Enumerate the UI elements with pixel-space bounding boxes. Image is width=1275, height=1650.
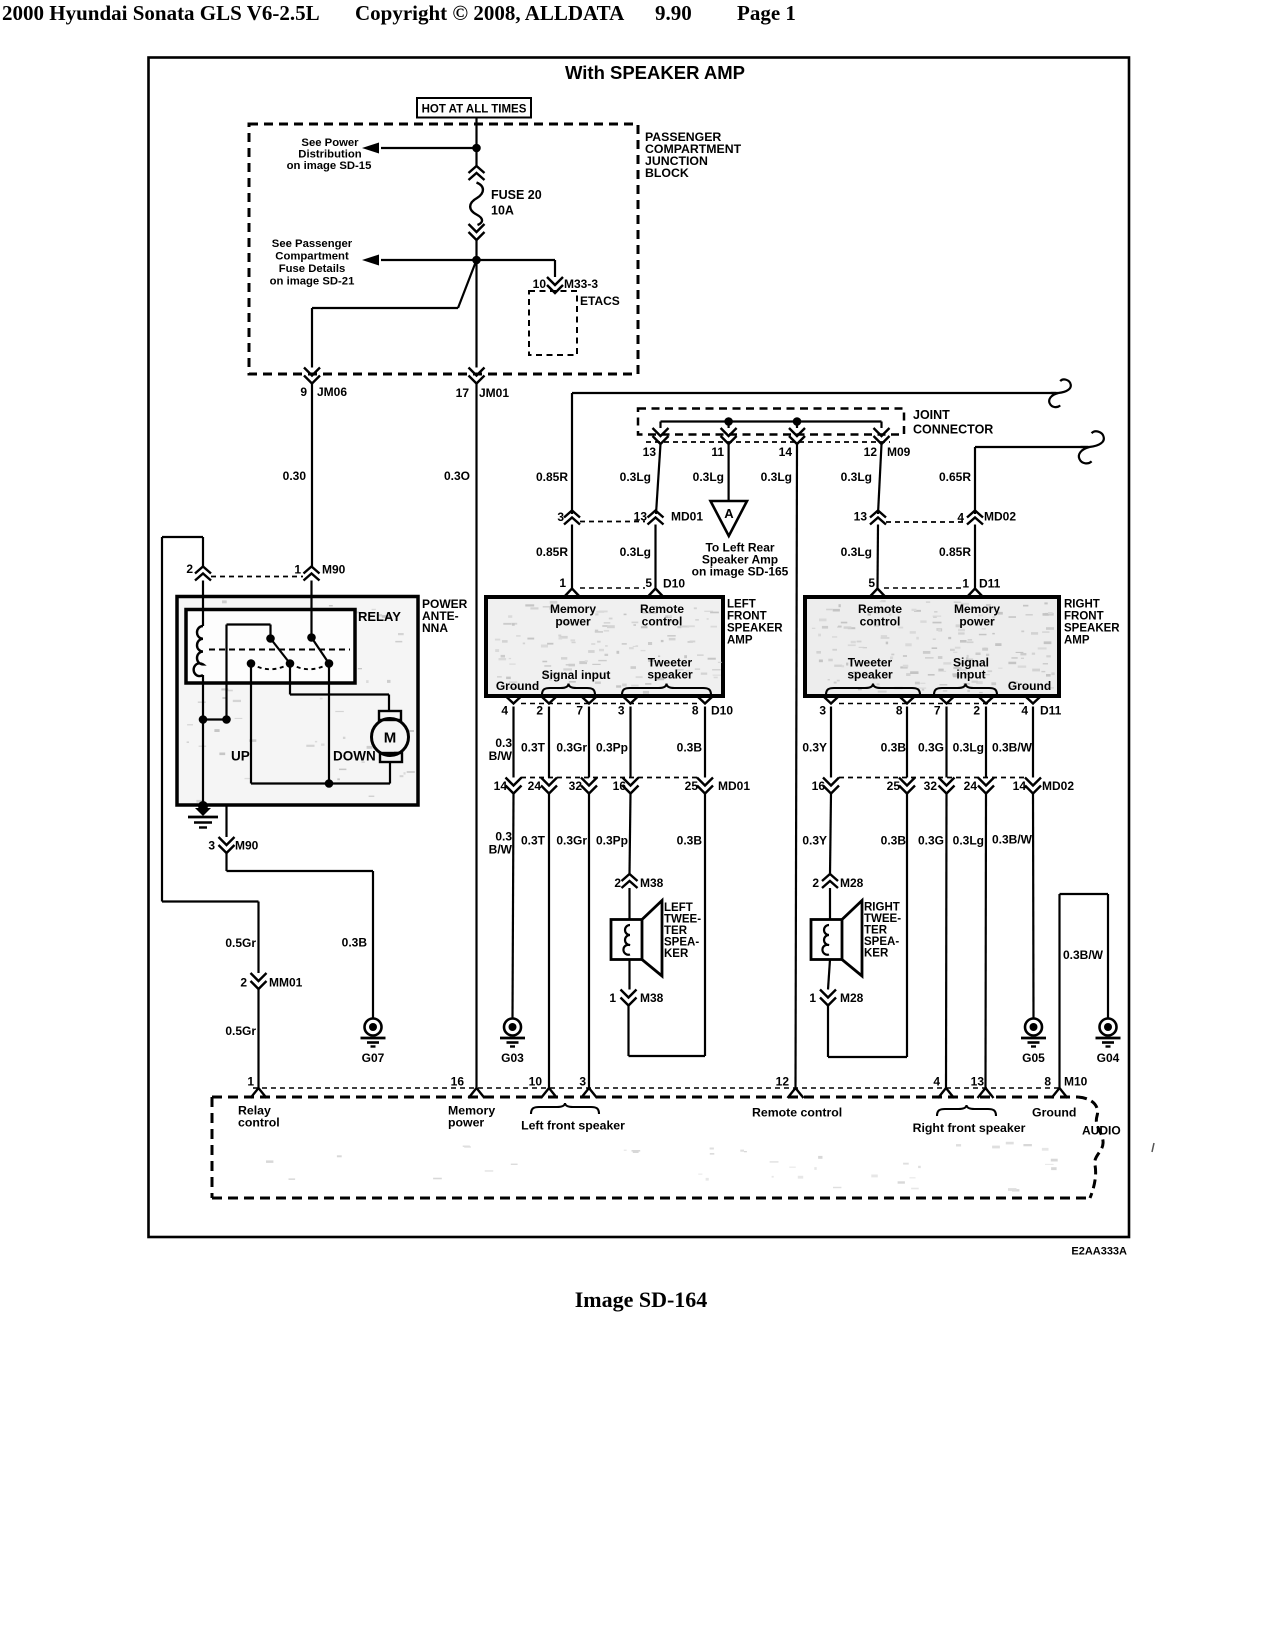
svg-text:10: 10	[529, 1075, 543, 1089]
svg-text:9: 9	[300, 385, 307, 399]
svg-text:MD01: MD01	[718, 779, 750, 793]
svg-text:B/W: B/W	[489, 749, 513, 763]
svg-text:2: 2	[536, 704, 543, 718]
svg-text:Distribution: Distribution	[298, 149, 361, 161]
svg-text:25: 25	[887, 779, 901, 793]
svg-text:5: 5	[868, 576, 875, 590]
svg-text:7: 7	[934, 704, 941, 718]
svg-text:Remote control: Remote control	[752, 1106, 842, 1120]
svg-text:See Power: See Power	[301, 137, 359, 149]
svg-text:0.5Gr: 0.5Gr	[225, 936, 256, 950]
svg-text:D11: D11	[1040, 704, 1062, 718]
svg-text:Ground: Ground	[1008, 679, 1051, 693]
svg-text:1: 1	[294, 563, 301, 577]
svg-text:Right front speaker: Right front speaker	[913, 1121, 1026, 1135]
svg-text:0.3G: 0.3G	[918, 741, 944, 755]
svg-text:4: 4	[1021, 704, 1028, 718]
svg-text:AMP: AMP	[727, 635, 753, 647]
svg-text:TWEE-: TWEE-	[664, 914, 701, 926]
svg-text:2000 Hyundai Sonata GLS V6-2.5: 2000 Hyundai Sonata GLS V6-2.5L	[2, 1, 320, 25]
svg-text:M28: M28	[840, 991, 864, 1005]
svg-text:1: 1	[609, 991, 616, 1005]
svg-text:power: power	[448, 1116, 484, 1130]
svg-text:D10: D10	[663, 577, 685, 591]
svg-text:NNA: NNA	[422, 621, 448, 635]
svg-text:Image SD-164: Image SD-164	[575, 1287, 708, 1312]
svg-text:5: 5	[645, 576, 652, 590]
svg-text:G03: G03	[501, 1051, 524, 1065]
svg-text:17: 17	[456, 386, 470, 400]
svg-text:0.3Gr: 0.3Gr	[556, 834, 587, 848]
svg-text:9.90: 9.90	[655, 1, 692, 25]
svg-text:32: 32	[569, 779, 583, 793]
svg-text:12: 12	[776, 1075, 790, 1089]
svg-text:DOWN: DOWN	[333, 749, 376, 764]
svg-text:G04: G04	[1097, 1051, 1120, 1065]
svg-text:8: 8	[896, 704, 903, 718]
svg-text:11: 11	[711, 445, 724, 459]
svg-text:13: 13	[971, 1075, 985, 1089]
svg-text:G07: G07	[362, 1051, 385, 1065]
svg-text:SPEAKER: SPEAKER	[1064, 623, 1120, 635]
svg-text:0.3B: 0.3B	[881, 834, 907, 848]
svg-text:0.3B: 0.3B	[677, 834, 703, 848]
svg-text:With SPEAKER AMP: With SPEAKER AMP	[565, 62, 745, 83]
svg-text:on image SD-21: on image SD-21	[270, 276, 355, 288]
svg-text:LEFT: LEFT	[664, 902, 693, 914]
svg-text:0.3Lg: 0.3Lg	[953, 741, 984, 755]
svg-text:Copyright © 2008, ALLDATA: Copyright © 2008, ALLDATA	[355, 1, 625, 25]
svg-text:7: 7	[576, 704, 583, 718]
svg-text:0.3Pp: 0.3Pp	[596, 834, 628, 848]
svg-text:0.3B/W: 0.3B/W	[992, 833, 1033, 847]
svg-text:0.85R: 0.85R	[536, 545, 568, 559]
svg-text:12: 12	[864, 445, 878, 459]
svg-text:MM01: MM01	[269, 976, 303, 990]
svg-text:24: 24	[528, 779, 542, 793]
svg-text:on image SD-15: on image SD-15	[287, 160, 372, 172]
svg-text:M33-3: M33-3	[564, 277, 598, 291]
svg-text:TER: TER	[664, 925, 688, 937]
svg-text:CONNECTOR: CONNECTOR	[913, 423, 993, 437]
svg-text:SPEAKER: SPEAKER	[727, 623, 783, 635]
svg-text:MD02: MD02	[1042, 779, 1074, 793]
svg-text:13: 13	[854, 510, 868, 524]
svg-text:Ground: Ground	[1032, 1106, 1076, 1120]
svg-text:JM01: JM01	[479, 386, 509, 400]
svg-text:3: 3	[557, 510, 564, 524]
svg-text:1: 1	[247, 1075, 254, 1089]
svg-text:1: 1	[559, 576, 566, 590]
svg-text:on image SD-165: on image SD-165	[692, 565, 789, 579]
svg-text:RIGHT: RIGHT	[864, 902, 900, 914]
svg-text:KER: KER	[864, 948, 889, 960]
svg-text:0.3Lg: 0.3Lg	[693, 470, 724, 484]
svg-text:0.3: 0.3	[495, 830, 512, 844]
svg-text:D10: D10	[711, 704, 733, 718]
svg-text:HOT AT ALL TIMES: HOT AT ALL TIMES	[422, 104, 527, 116]
svg-text:BLOCK: BLOCK	[645, 166, 689, 180]
svg-text:14: 14	[494, 779, 508, 793]
svg-text:0.3Lg: 0.3Lg	[841, 470, 872, 484]
svg-text:ETACS: ETACS	[580, 294, 620, 308]
svg-text:AUDIO: AUDIO	[1082, 1124, 1121, 1138]
svg-text:3: 3	[579, 1075, 586, 1089]
svg-text:4: 4	[501, 704, 508, 718]
svg-text:D11: D11	[979, 577, 1001, 591]
svg-text:SPEA-: SPEA-	[864, 936, 899, 948]
svg-text:3: 3	[208, 839, 215, 853]
svg-text:TER: TER	[864, 925, 888, 937]
svg-text:M38: M38	[640, 876, 664, 890]
svg-text:E2AA333A: E2AA333A	[1071, 1246, 1127, 1258]
svg-text:SPEA-: SPEA-	[664, 937, 699, 949]
svg-text:B/W: B/W	[489, 843, 513, 857]
svg-text:0.65R: 0.65R	[939, 470, 971, 484]
svg-text:0.3T: 0.3T	[521, 834, 546, 848]
svg-text:0.3Lg: 0.3Lg	[620, 470, 651, 484]
svg-text:0.3T: 0.3T	[521, 741, 546, 755]
svg-text:power: power	[555, 615, 591, 629]
svg-text:16: 16	[613, 779, 627, 793]
svg-text:2: 2	[614, 876, 621, 890]
svg-text:24: 24	[964, 779, 978, 793]
svg-text:KER: KER	[664, 948, 689, 960]
svg-text:TWEE-: TWEE-	[864, 913, 901, 925]
svg-text:0.3Lg: 0.3Lg	[841, 545, 872, 559]
svg-text:control: control	[642, 615, 683, 629]
svg-text:0.3B: 0.3B	[881, 741, 907, 755]
svg-text:0.3Lg: 0.3Lg	[761, 470, 792, 484]
svg-text:0.3B/W: 0.3B/W	[992, 741, 1033, 755]
svg-text:FUSE 20: FUSE 20	[491, 188, 542, 202]
svg-text:2: 2	[240, 976, 247, 990]
svg-text:14: 14	[779, 445, 793, 459]
svg-text:speaker: speaker	[847, 668, 893, 682]
svg-text:13: 13	[634, 510, 648, 524]
svg-text:4: 4	[957, 511, 964, 525]
svg-text:Signal input: Signal input	[542, 668, 611, 682]
svg-text:32: 32	[924, 779, 938, 793]
svg-text:M90: M90	[235, 839, 259, 853]
svg-text:input: input	[956, 668, 985, 682]
svg-text:FRONT: FRONT	[727, 611, 767, 623]
svg-text:0.3B: 0.3B	[677, 741, 703, 755]
svg-text:M: M	[384, 730, 397, 747]
svg-text:10A: 10A	[491, 204, 514, 218]
svg-text:0.85R: 0.85R	[536, 470, 568, 484]
svg-text:M38: M38	[640, 991, 664, 1005]
svg-text:G05: G05	[1022, 1051, 1045, 1065]
svg-text:0.3Gr: 0.3Gr	[556, 741, 587, 755]
svg-text:2: 2	[973, 704, 980, 718]
svg-text:16: 16	[812, 779, 826, 793]
svg-text:control: control	[860, 615, 901, 629]
svg-text:JOINT: JOINT	[913, 408, 950, 422]
svg-text:M28: M28	[840, 876, 864, 890]
svg-text:M90: M90	[322, 563, 346, 577]
svg-text:UP: UP	[231, 749, 250, 764]
svg-text:Fuse Details: Fuse Details	[279, 263, 346, 275]
svg-text:25: 25	[685, 779, 699, 793]
svg-text:0.3Y: 0.3Y	[802, 741, 827, 755]
svg-text:MD02: MD02	[984, 510, 1016, 524]
svg-text:Left front speaker: Left front speaker	[521, 1119, 625, 1133]
svg-text:JM06: JM06	[317, 385, 347, 399]
svg-text:speaker: speaker	[647, 668, 693, 682]
svg-text:0.5Gr: 0.5Gr	[225, 1024, 256, 1038]
svg-text:1: 1	[962, 577, 969, 591]
svg-text:power: power	[959, 615, 995, 629]
svg-text:0.85R: 0.85R	[939, 545, 971, 559]
svg-text:0.3B/W: 0.3B/W	[1063, 948, 1104, 962]
svg-text:control: control	[238, 1116, 280, 1130]
svg-text:14: 14	[1013, 779, 1027, 793]
svg-text:1: 1	[809, 991, 816, 1005]
svg-text:MD01: MD01	[671, 510, 703, 524]
svg-text:3: 3	[819, 704, 826, 718]
svg-text:M10: M10	[1064, 1075, 1088, 1089]
svg-text:10: 10	[533, 277, 547, 291]
svg-text:2: 2	[186, 562, 193, 576]
svg-text:8: 8	[1044, 1075, 1051, 1089]
svg-text:13: 13	[643, 445, 657, 459]
svg-text:AMP: AMP	[1064, 635, 1090, 647]
svg-text:0.3Pp: 0.3Pp	[596, 741, 628, 755]
svg-text:0.3G: 0.3G	[918, 834, 944, 848]
svg-text:Ground: Ground	[496, 679, 539, 693]
svg-text:0.3O: 0.3O	[444, 469, 470, 483]
svg-text:4: 4	[933, 1075, 940, 1089]
svg-text:RELAY: RELAY	[358, 609, 401, 624]
svg-text:2: 2	[812, 876, 819, 890]
svg-text:0.3Lg: 0.3Lg	[620, 545, 651, 559]
svg-text:A: A	[724, 506, 734, 521]
svg-text:LEFT: LEFT	[727, 599, 756, 611]
svg-text:0.30: 0.30	[283, 469, 307, 483]
svg-text:3: 3	[618, 704, 625, 718]
svg-text:M09: M09	[887, 445, 911, 459]
svg-text:See Passenger: See Passenger	[272, 238, 353, 250]
svg-text:RIGHT: RIGHT	[1064, 599, 1100, 611]
svg-text:FRONT: FRONT	[1064, 611, 1104, 623]
svg-text:0.3B: 0.3B	[342, 936, 368, 950]
svg-text:0.3: 0.3	[495, 736, 512, 750]
svg-text:0.3Y: 0.3Y	[802, 834, 827, 848]
svg-text:Page 1: Page 1	[737, 1, 796, 25]
svg-text:16: 16	[451, 1075, 465, 1089]
svg-text:8: 8	[692, 704, 699, 718]
svg-text:0.3Lg: 0.3Lg	[953, 834, 984, 848]
svg-text:Compartment: Compartment	[275, 251, 349, 263]
